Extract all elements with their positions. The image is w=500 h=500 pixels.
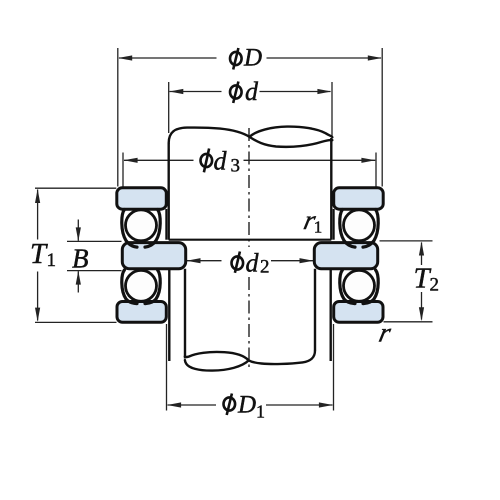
svg-text:d: d (246, 249, 260, 278)
dimension phi-D: right arrowhead (368, 55, 382, 60)
dimension phi-D: dimension line (119, 57, 381, 59)
svg-text:1: 1 (314, 217, 323, 236)
svg-text:T: T (30, 238, 48, 270)
dimension phi-D1: left arrowhead (167, 402, 181, 407)
dimension B: upper arrowhead (76, 227, 81, 241)
dimension T2: extension lines (380, 241, 433, 322)
dimension B: lower arrowhead (76, 271, 81, 285)
dimension phi-d: extension lines (169, 82, 332, 136)
upper ball (126, 210, 157, 241)
top housing washer (117, 188, 167, 209)
label phi d (230, 82, 242, 104)
dimension T1: dimension line (37, 190, 39, 321)
shaft lower-right edge (314, 269, 316, 351)
dimension phi-d2: left arrowhead (187, 258, 201, 263)
svg-text:2: 2 (430, 275, 440, 296)
dimension T2: dimension line (421, 243, 423, 320)
dimension phi-d2: right arrowhead (300, 258, 314, 263)
dimension B: extension lines (67, 241, 122, 270)
svg-text:B: B (72, 243, 89, 273)
dimension phi-D1: dimension line (168, 404, 333, 406)
svg-text:1: 1 (47, 250, 57, 271)
lower ball (126, 270, 157, 301)
dimension phi-d3: left arrowhead (124, 158, 138, 163)
svg-text:d: d (214, 147, 228, 176)
label phi D (230, 48, 242, 70)
dimension T1: bottom arrowhead (35, 308, 40, 322)
svg-text:D: D (237, 392, 256, 419)
left bearing column group (reused mirrored for right column) (117, 188, 186, 361)
shaft bottom break line (S-curve) (185, 351, 315, 365)
dimension phi-D: extension lines (118, 48, 382, 187)
svg-text:1: 1 (256, 402, 265, 422)
right bearing column (mirror of left column) (314, 188, 383, 361)
shaft outline continuation below center washer (168, 269, 170, 361)
dimension phi-D1: extension lines (167, 324, 334, 411)
dimension phi-D1: right arrowhead (319, 402, 333, 407)
dimension phi-d: dimension line (170, 91, 331, 93)
lower cage right half (145, 270, 160, 304)
shaft upper-left edge (167, 143, 169, 240)
dimension T2: top arrowhead (419, 242, 424, 256)
dimension phi-d: left arrowhead (169, 89, 183, 94)
svg-text:2: 2 (260, 257, 270, 278)
svg-text:3: 3 (231, 156, 241, 177)
shaft top break line (S-curve) (169, 128, 333, 147)
label phi D1 (224, 394, 236, 416)
dimension B: arrow leader lines (77, 220, 79, 293)
dimension T1: top arrowhead (35, 189, 40, 203)
lower cage left half (122, 270, 137, 304)
dimension phi-d3: extension lines (123, 153, 376, 189)
dimension T1: extension lines (35, 188, 117, 322)
center shaft washer (122, 243, 185, 269)
dimension phi-D: left arrowhead (118, 55, 132, 60)
dimension phi-d3: right arrowhead (361, 158, 375, 163)
dimension phi-d: right arrowhead (317, 89, 331, 94)
upper cage left half (122, 210, 137, 248)
svg-text:D: D (243, 44, 262, 71)
svg-text:d: d (245, 77, 259, 106)
housing washer bore edge (between top washer and shoulder) (165, 209, 167, 240)
dimension phi-d2: dimension line (187, 260, 313, 262)
shaft upper-right edge (330, 138, 332, 240)
dimension phi-d3: dimension line (124, 159, 375, 161)
label phi d3 (201, 149, 213, 173)
bottom housing washer (117, 302, 166, 323)
vertical centerline (dash-dot axis of shaft) (248, 128, 250, 371)
upper cage right half (145, 210, 160, 248)
shaft shoulder face (169, 239, 332, 241)
dimension T2: bottom arrowhead (419, 307, 424, 321)
label phi d2 (232, 252, 244, 273)
shaft lower-left edge (184, 269, 186, 359)
shaft bottom break lens (end-face ellipse) (185, 360, 249, 371)
shaft top break lens (end-face ellipse) (250, 127, 333, 138)
